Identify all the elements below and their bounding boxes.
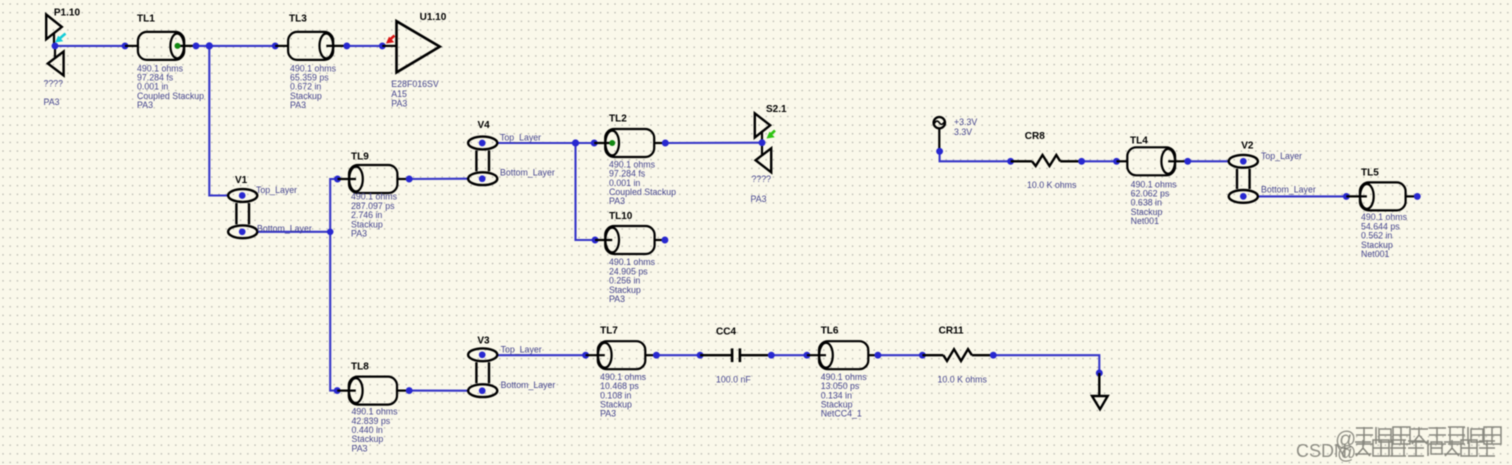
ground (1092, 373, 1108, 409)
transmission line TL10 (595, 211, 665, 304)
svg-text:V4: V4 (478, 120, 491, 131)
svg-text:PA3: PA3 (600, 409, 616, 419)
svg-text:100.0 nF: 100.0 nF (716, 375, 751, 385)
connector P1.10 (44, 7, 81, 107)
wire CR8 to TL4 (1082, 160, 1117, 162)
pin dot CR8 left (1007, 158, 1014, 165)
svg-text:Top_Layer: Top_Layer (1261, 151, 1302, 161)
svg-text:TL1: TL1 (137, 14, 155, 25)
wire V4 top to TL2 (498, 142, 595, 144)
pin dot CR8 right (1078, 158, 1085, 165)
svg-text:Bottom_Layer: Bottom_Layer (501, 380, 556, 390)
pin dot V4 top (479, 140, 486, 147)
pin dot V1 bottom (239, 228, 246, 235)
svg-text:Net001: Net001 (1131, 216, 1159, 226)
via V2 (1229, 141, 1316, 203)
junction dot V1 bus (327, 229, 334, 236)
wire TL9 to V4 bottom (409, 178, 467, 180)
via V3 (468, 336, 555, 398)
svg-text:PA3: PA3 (352, 443, 368, 453)
pin dot TL3 right (343, 42, 350, 49)
pin dot TL9 left (334, 176, 341, 183)
transmission line TL2 (594, 114, 676, 207)
transmission line TL6 (807, 325, 878, 418)
pin dot CC4 right (768, 352, 775, 359)
svg-text:PA3: PA3 (609, 196, 625, 206)
svg-text:TL2: TL2 (609, 114, 627, 125)
svg-text:NetCC4_1: NetCC4_1 (821, 409, 862, 419)
svg-text:CR11: CR11 (939, 325, 964, 336)
wire power to CR8 (940, 151, 1011, 161)
pin dot TL4 right (1184, 158, 1191, 165)
svg-text:Top_Layer: Top_Layer (256, 185, 297, 195)
wire TL2 to S2.1 (665, 142, 762, 144)
capacitor CC4 (700, 326, 771, 384)
junction node TL2/TL10 branch (572, 139, 579, 146)
pin dot TL7 right (653, 352, 660, 359)
resistor CR8 (1011, 131, 1082, 190)
svg-text:PA3: PA3 (391, 99, 407, 109)
svg-text:????: ???? (752, 174, 772, 184)
svg-text:TL4: TL4 (1130, 136, 1148, 147)
svg-text:A15: A15 (391, 89, 407, 99)
transmission line TL3 (275, 14, 347, 111)
wire V2 bottom to TL5 (1258, 195, 1347, 197)
svg-text:V3: V3 (477, 336, 490, 347)
wire TL4 to V2 top (1188, 160, 1229, 162)
pin dot TL8 left (334, 387, 341, 394)
svg-text:TL3: TL3 (289, 14, 307, 25)
svg-text:3.3V: 3.3V (954, 127, 972, 137)
junction dot CC4 left (697, 352, 704, 359)
svg-text:P1.10: P1.10 (54, 7, 81, 18)
pin dot TL4 left (1113, 158, 1120, 165)
pin dot V3 bottom (479, 387, 486, 394)
pin dot V2 bottom (1240, 193, 1247, 200)
pin dot TL8 right (406, 387, 413, 394)
transmission line TL7 (586, 325, 657, 418)
pin dot TL6 left (803, 352, 810, 359)
svg-text:10.0 K ohms: 10.0 K ohms (1027, 180, 1077, 190)
watermark juejin (1335, 428, 1356, 451)
wire CC4 to TL6 (771, 354, 807, 356)
svg-text:TL5: TL5 (1361, 168, 1379, 179)
pin dot P1.10 (52, 42, 59, 49)
watermark csdn (1296, 441, 1356, 464)
pin dot TL7 left (582, 352, 589, 359)
transmission line TL9 (338, 152, 410, 239)
svg-text:Net001: Net001 (1361, 249, 1389, 259)
svg-text:V1: V1 (235, 175, 248, 186)
transmission line TL8 (337, 361, 409, 453)
connector S2.1 (751, 104, 788, 204)
pin dot ground (1096, 370, 1103, 377)
buffer U1.10 (382, 12, 446, 108)
svg-text:+3.3V: +3.3V (954, 117, 977, 127)
wire branch to TL10 (576, 143, 596, 240)
pin dot power (936, 148, 943, 155)
svg-text:PA3: PA3 (351, 229, 367, 239)
red direction arrow U1.10 (386, 36, 395, 44)
svg-text:????: ???? (44, 79, 64, 89)
resistor CR11 (922, 325, 993, 384)
svg-text:@: @ (1337, 443, 1356, 464)
pin dot TL2 left (591, 140, 598, 147)
pin dot TL1 right (193, 42, 200, 49)
svg-text:E28F016SV: E28F016SV (391, 79, 439, 89)
wire TL1 to TL3 (196, 45, 275, 47)
junction node branch to V1 (206, 42, 213, 49)
pin dot TL3 left (272, 42, 279, 49)
pin dot TL10 left (592, 237, 599, 244)
power symbol +3.3V (934, 117, 978, 151)
svg-text:V2: V2 (1241, 141, 1254, 152)
svg-text:CC4: CC4 (716, 326, 736, 337)
svg-text:Top_Layer: Top_Layer (501, 345, 542, 355)
svg-text:CR8: CR8 (1025, 131, 1045, 142)
pin dot S2.1 (759, 139, 766, 146)
cyan direction arrow P1.10 (55, 34, 66, 43)
pin dot V4 bottom (479, 175, 486, 182)
green direction arrow S2.1 (767, 131, 776, 139)
wire vertical bus TL9-TL8 (330, 179, 337, 391)
transmission line TL1 (125, 14, 204, 111)
wire TL8 to V3 bottom (409, 390, 468, 392)
svg-text:PA3: PA3 (290, 100, 306, 110)
wire TL6 to CR11 (878, 354, 923, 356)
via V4 (468, 120, 555, 185)
svg-text:TL10: TL10 (609, 211, 633, 222)
svg-text:TL7: TL7 (600, 325, 618, 336)
via V1 (228, 175, 312, 238)
svg-text:Bottom_Layer: Bottom_Layer (257, 224, 312, 234)
svg-text:TL8: TL8 (351, 361, 369, 372)
svg-text:PA3: PA3 (137, 100, 153, 110)
pin dot TL5 left (1343, 193, 1350, 200)
wire TL7 to CC4 (656, 354, 700, 356)
transmission line TL5 (1346, 168, 1417, 259)
svg-text:Bottom_Layer: Bottom_Layer (1261, 185, 1316, 195)
wire CR11 to ground (993, 355, 1099, 373)
svg-text:Bottom_Layer: Bottom_Layer (500, 168, 555, 178)
svg-text:U1.10: U1.10 (420, 12, 447, 23)
svg-text:10.0 K ohms: 10.0 K ohms (938, 375, 988, 385)
wire P1.10 to TL1 (55, 45, 125, 47)
wire V3 top to TL7 (498, 354, 586, 356)
svg-text:Top_Layer: Top_Layer (500, 133, 541, 143)
pin dot V1 top (239, 192, 246, 199)
junction dot before TL1 (122, 42, 129, 49)
svg-text:TL6: TL6 (821, 325, 839, 336)
wire branch node to V1 top (209, 46, 228, 196)
pin dot U1.10 (379, 42, 386, 49)
pin dot TL5 right dangling (1414, 193, 1421, 200)
transmission line TL4 (1117, 136, 1188, 227)
wire V1 bottom to vertical bus (258, 231, 331, 233)
pin dot CR11 right (990, 352, 997, 359)
pin dot CR11 left (919, 352, 926, 359)
svg-text:S2.1: S2.1 (766, 104, 787, 115)
watermark hanzi strokes (1355, 427, 1501, 456)
svg-text:PA3: PA3 (609, 294, 625, 304)
pin dot TL10 right dangling (661, 237, 668, 244)
svg-text:PA3: PA3 (44, 97, 60, 107)
pin dot TL2 right (662, 140, 669, 147)
pin dot V2 top (1240, 158, 1247, 165)
pin dot TL6 right (874, 352, 881, 359)
svg-text:PA3: PA3 (751, 194, 767, 204)
pin dot V3 top (479, 351, 486, 358)
svg-text:TL9: TL9 (351, 152, 369, 163)
wire TL3 to U1.10 (347, 45, 383, 47)
pin dot TL9 right (406, 176, 413, 183)
